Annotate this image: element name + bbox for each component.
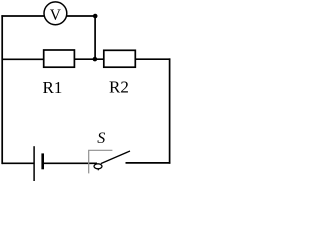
resistor R2 — [104, 50, 136, 67]
wire left rail — [1, 15, 3, 164]
wire R1 to R2 — [74, 58, 103, 60]
wire node A down to node B — [94, 16, 96, 59]
node A junction dot top — [93, 14, 98, 19]
svg-text:R1: R1 — [43, 78, 63, 97]
wire switch to right rail — [126, 162, 171, 164]
battery short plate — [41, 153, 44, 169]
battery long plate — [33, 146, 35, 181]
wire voltmeter to node A — [67, 15, 95, 17]
svg-text:V: V — [50, 7, 62, 24]
wire right rail — [169, 58, 171, 163]
wire left rail to R1 — [2, 58, 44, 60]
svg-text:R2: R2 — [109, 78, 129, 97]
resistor R1 — [44, 50, 75, 67]
switch S pivot circle — [94, 164, 102, 169]
wire battery to switch — [43, 162, 97, 164]
grey bracket around switch — [89, 150, 113, 173]
svg-text:S: S — [97, 130, 105, 147]
node B junction dot between R1 and R2 — [93, 57, 98, 62]
wire top left to voltmeter — [1, 15, 44, 17]
wire bottom left rail to battery — [2, 162, 34, 164]
switch arm blade — [101, 151, 130, 164]
voltmeter V — [44, 2, 67, 25]
wire R2 to right rail — [135, 58, 170, 60]
switch pivot nub — [97, 169, 99, 171]
